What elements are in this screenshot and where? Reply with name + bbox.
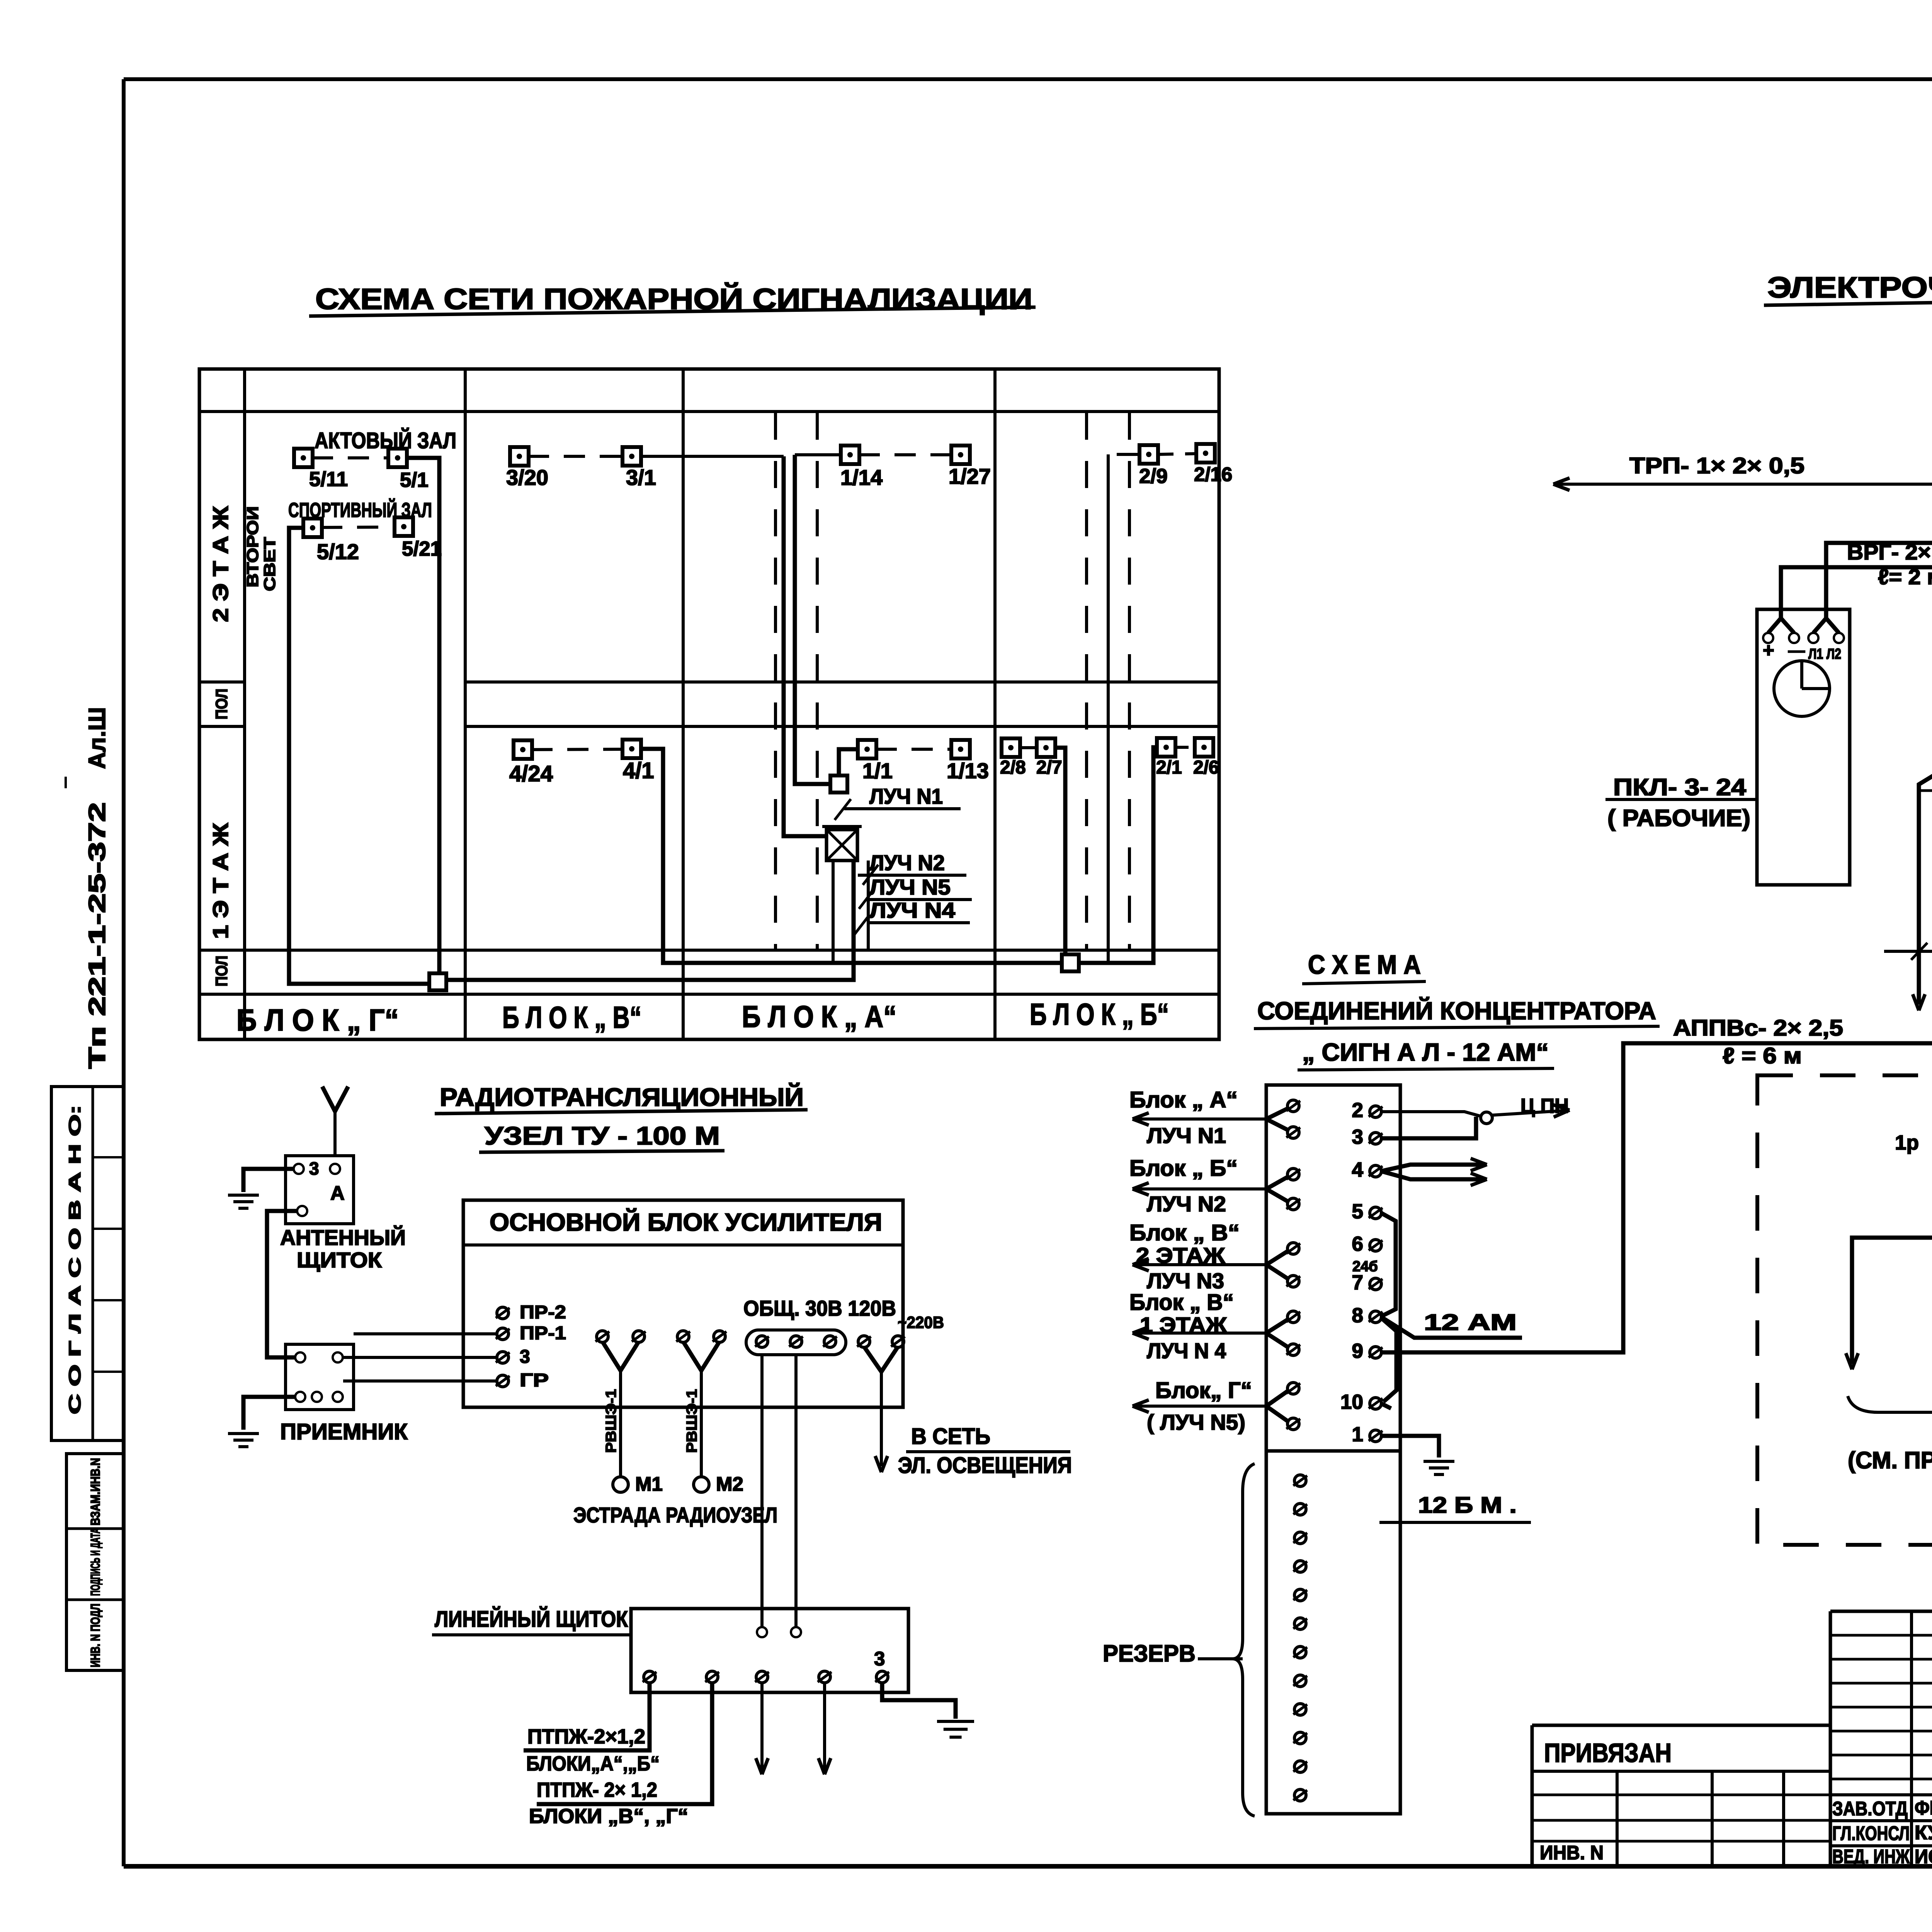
- svg-text:~220В: ~220В: [898, 1313, 944, 1332]
- svg-text:1 ЭТАЖ: 1 ЭТАЖ: [1140, 1313, 1227, 1337]
- svg-text:2/6: 2/6: [1193, 757, 1219, 778]
- svg-text:ВЗАМ.ИНВ.N: ВЗАМ.ИНВ.N: [88, 1458, 102, 1526]
- svg-text:3/1: 3/1: [626, 465, 656, 490]
- svg-text:РВШЭ-1: РВШЭ-1: [603, 1389, 619, 1453]
- svg-text:4/1: 4/1: [623, 758, 654, 783]
- svg-text:Б Л О К „ Б“: Б Л О К „ Б“: [1030, 997, 1169, 1031]
- svg-text:ОСНОВНОЙ БЛОК УСИЛИТЕЛЯ: ОСНОВНОЙ БЛОК УСИЛИТЕЛЯ: [490, 1208, 882, 1236]
- svg-text:2/16: 2/16: [1194, 463, 1232, 485]
- svg-text:ВТОРОЙ: ВТОРОЙ: [243, 506, 262, 587]
- svg-text:СВЕТ: СВЕТ: [260, 537, 279, 591]
- svg-text:Тп 221-1-25-372: Тп 221-1-25-372: [84, 802, 110, 1069]
- svg-text:1/1: 1/1: [862, 759, 893, 783]
- svg-text:—: —: [1788, 641, 1805, 660]
- svg-text:БЛОКИ„А“,„Б“: БЛОКИ„А“,„Б“: [526, 1752, 660, 1775]
- svg-text:5/21: 5/21: [402, 537, 442, 560]
- svg-text:ПРИВЯЗАН: ПРИВЯЗАН: [1544, 1738, 1672, 1768]
- svg-text:2/1: 2/1: [1156, 757, 1182, 778]
- svg-text:+: +: [1763, 639, 1774, 661]
- svg-text:ЛУЧ N 4: ЛУЧ N 4: [1147, 1338, 1226, 1363]
- svg-text:10: 10: [1340, 1391, 1363, 1413]
- svg-text:ЛИНЕЙНЫЙ ЩИТОК: ЛИНЕЙНЫЙ ЩИТОК: [435, 1607, 628, 1632]
- svg-text:ЩИТОК: ЩИТОК: [297, 1248, 382, 1272]
- svg-text:( ЛУЧ N5): ( ЛУЧ N5): [1147, 1410, 1245, 1434]
- svg-text:Блок „ В“: Блок „ В“: [1129, 1290, 1234, 1315]
- svg-text:1: 1: [1352, 1423, 1363, 1446]
- svg-text:( РАБОЧИЕ): ( РАБОЧИЕ): [1607, 805, 1750, 831]
- svg-text:ЛУЧ N2: ЛУЧ N2: [869, 850, 945, 875]
- svg-text:УЗЕЛ ТУ - 100 М: УЗЕЛ ТУ - 100 М: [485, 1121, 720, 1150]
- svg-text:Б Л О К „ В“: Б Л О К „ В“: [502, 1000, 641, 1034]
- svg-text:1 Э Т А Ж: 1 Э Т А Ж: [208, 823, 233, 939]
- svg-text:СОЕДИНЕНИЙ КОНЦЕНТРАТОРА: СОЕДИНЕНИЙ КОНЦЕНТРАТОРА: [1257, 997, 1656, 1025]
- svg-text:А: А: [330, 1182, 345, 1204]
- svg-text:ЗАВ.ОТД: ЗАВ.ОТД: [1832, 1798, 1908, 1820]
- svg-text:РАДИОТРАНСЛЯЦИОННЫЙ: РАДИОТРАНСЛЯЦИОННЫЙ: [440, 1082, 804, 1111]
- svg-text:ГР: ГР: [520, 1370, 549, 1391]
- svg-text:5/12: 5/12: [317, 539, 359, 564]
- svg-text:ВРГ- 2× 1,5: ВРГ- 2× 1,5: [1847, 540, 1932, 564]
- svg-text:КУХТО: КУХТО: [1915, 1821, 1932, 1844]
- svg-text:4/24: 4/24: [509, 761, 553, 786]
- svg-text:ЭЛЕКТРОЧАСОВАЯ УСТАНОВКА: ЭЛЕКТРОЧАСОВАЯ УСТАНОВКА: [1767, 271, 1932, 304]
- svg-text:Ал.Ш: Ал.Ш: [84, 707, 110, 769]
- svg-text:ЛУЧ N1: ЛУЧ N1: [869, 784, 943, 808]
- svg-text:5/11: 5/11: [309, 468, 348, 491]
- svg-text:Блок„ Г“: Блок„ Г“: [1155, 1378, 1252, 1403]
- svg-text:Л1 Л2: Л1 Л2: [1808, 646, 1841, 662]
- svg-text:ФРЕЙДИН: ФРЕЙДИН: [1915, 1796, 1932, 1819]
- svg-text:Блок „ Б“: Блок „ Б“: [1129, 1156, 1238, 1181]
- svg-text:РВШЭ-1: РВШЭ-1: [684, 1389, 700, 1453]
- svg-text:6: 6: [1352, 1233, 1363, 1255]
- svg-text:12 АМ: 12 АМ: [1424, 1310, 1517, 1335]
- svg-text:2: 2: [1352, 1099, 1363, 1122]
- svg-text:(СМ. ПРОЕКТ ЭЛ.ОБОРУДОВАНИЯ: (СМ. ПРОЕКТ ЭЛ.ОБОРУДОВАНИЯ: [1848, 1447, 1932, 1473]
- svg-text:ПОДПИСЬ И ДАТА: ПОДПИСЬ И ДАТА: [88, 1528, 102, 1596]
- svg-text:1/13: 1/13: [947, 759, 989, 783]
- svg-text:2/8: 2/8: [1000, 757, 1026, 778]
- svg-text:ПОЛ: ПОЛ: [213, 956, 231, 986]
- svg-text:М1: М1: [635, 1473, 663, 1495]
- svg-text:1р: 1р: [1895, 1131, 1919, 1154]
- svg-text:1/14: 1/14: [840, 465, 883, 490]
- svg-text:3: 3: [309, 1158, 319, 1179]
- svg-text:ОБЩ. 30В 120В: ОБЩ. 30В 120В: [743, 1296, 896, 1320]
- svg-text:„ СИГН А Л - 12 АМ“: „ СИГН А Л - 12 АМ“: [1302, 1038, 1549, 1066]
- svg-text:ЭСТРАДА РАДИОУЗЕЛ: ЭСТРАДА РАДИОУЗЕЛ: [573, 1503, 777, 1527]
- svg-text:РЕЗЕРВ: РЕЗЕРВ: [1103, 1640, 1196, 1667]
- svg-text:2/9: 2/9: [1139, 465, 1168, 488]
- svg-text:ЛУЧ N1: ЛУЧ N1: [1147, 1123, 1226, 1148]
- svg-text:С Х Е М А: С Х Е М А: [1308, 950, 1421, 980]
- svg-text:Б Л О К „ Г“: Б Л О К „ Г“: [236, 1003, 399, 1037]
- svg-text:ЭЛ. ОСВЕЩЕНИЯ: ЭЛ. ОСВЕЩЕНИЯ: [898, 1453, 1072, 1478]
- svg-text:3: 3: [520, 1347, 530, 1367]
- svg-text:2/7: 2/7: [1036, 757, 1062, 778]
- svg-text:ℓ= 2 м: ℓ= 2 м: [1878, 565, 1932, 589]
- svg-text:5: 5: [1352, 1200, 1363, 1223]
- svg-text:ℓ = 6 м: ℓ = 6 м: [1723, 1043, 1802, 1068]
- svg-text:БЛОКИ „В“, „Г“: БЛОКИ „В“, „Г“: [529, 1805, 688, 1828]
- svg-text:ПКЛ- 3- 24: ПКЛ- 3- 24: [1613, 774, 1746, 800]
- svg-text:ИСАЕВА: ИСАЕВА: [1915, 1845, 1932, 1867]
- svg-text:С О Г Л А С О В А Н О:: С О Г Л А С О В А Н О:: [66, 1105, 84, 1414]
- svg-text:8: 8: [1352, 1304, 1363, 1327]
- svg-text:Блок „ А“: Блок „ А“: [1129, 1087, 1238, 1112]
- svg-text:ПТПЖ-2×1,2: ПТПЖ-2×1,2: [527, 1725, 645, 1748]
- svg-text:12 Б М .: 12 Б М .: [1418, 1493, 1517, 1518]
- svg-text:ВЕД. ИНЖ: ВЕД. ИНЖ: [1832, 1845, 1910, 1867]
- svg-text:ПТПЖ- 2× 1,2: ПТПЖ- 2× 1,2: [537, 1779, 657, 1801]
- svg-text:ЛУЧ N4: ЛУЧ N4: [869, 898, 955, 922]
- svg-text:2 Э Т А Ж: 2 Э Т А Ж: [208, 506, 233, 622]
- svg-text:ПР-1: ПР-1: [520, 1323, 566, 1344]
- svg-text:ЛУЧ N5: ЛУЧ N5: [869, 875, 951, 899]
- svg-text:ПР-2: ПР-2: [520, 1302, 566, 1323]
- svg-text:24б: 24б: [1352, 1259, 1378, 1275]
- svg-text:ЛУЧ N3: ЛУЧ N3: [1147, 1269, 1224, 1293]
- svg-text:5/1: 5/1: [400, 469, 429, 492]
- svg-text:М2: М2: [716, 1473, 743, 1495]
- svg-text:В СЕТЬ: В СЕТЬ: [911, 1424, 990, 1449]
- svg-text:Блок „ В“: Блок „ В“: [1129, 1220, 1240, 1245]
- svg-text:ТРП- 1× 2× 0,5: ТРП- 1× 2× 0,5: [1629, 453, 1804, 478]
- svg-text:1/27: 1/27: [949, 464, 991, 488]
- svg-text:АППВс- 2× 2,5: АППВс- 2× 2,5: [1673, 1015, 1843, 1041]
- svg-text:Б Л О К „ А“: Б Л О К „ А“: [742, 999, 896, 1034]
- svg-text:9: 9: [1352, 1340, 1363, 1362]
- svg-text:3: 3: [874, 1648, 885, 1670]
- svg-text:ИНВ. N ПОДЛ: ИНВ. N ПОДЛ: [88, 1604, 102, 1667]
- svg-text:АКТОВЫЙ ЗАЛ: АКТОВЫЙ ЗАЛ: [315, 428, 456, 453]
- svg-text:ПОЛ: ПОЛ: [213, 689, 231, 719]
- svg-text:АНТЕННЫЙ: АНТЕННЫЙ: [280, 1225, 406, 1250]
- svg-text:3/20: 3/20: [506, 465, 548, 490]
- svg-text:2 ЭТАЖ: 2 ЭТАЖ: [1136, 1243, 1225, 1267]
- svg-text:ЛУЧ N2: ЛУЧ N2: [1147, 1192, 1226, 1216]
- svg-text:ГЛ.КОНСЛ: ГЛ.КОНСЛ: [1832, 1822, 1910, 1844]
- svg-text:4: 4: [1352, 1158, 1364, 1181]
- svg-text:ИНВ. N: ИНВ. N: [1540, 1842, 1604, 1864]
- svg-text:Ц ПН: Ц ПН: [1520, 1095, 1569, 1117]
- svg-text:ПРИЕМНИК: ПРИЕМНИК: [280, 1419, 408, 1444]
- svg-text:3: 3: [1352, 1126, 1363, 1148]
